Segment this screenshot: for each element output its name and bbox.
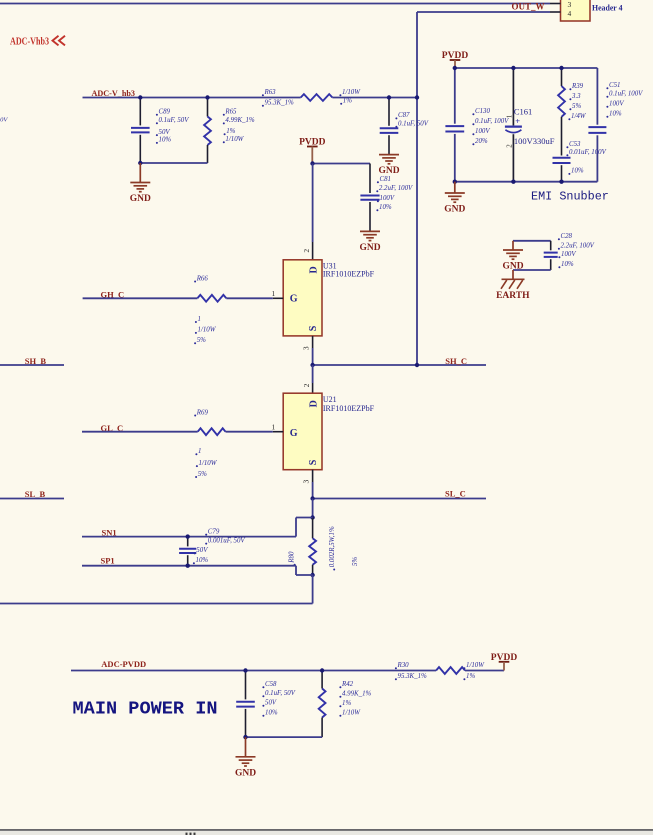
ground under C81 (360, 230, 380, 232)
svg-text:1: 1 (272, 423, 276, 432)
wire SP1 jog down (295, 566, 297, 575)
svg-text:1/10W: 1/10W (342, 710, 361, 717)
wire SH_B stub (0, 364, 64, 366)
svg-text:1/10W: 1/10W (225, 136, 244, 143)
resistor R30 95.3K (436, 667, 465, 674)
svg-text:100V: 100V (561, 251, 576, 258)
svg-text:10%: 10% (379, 204, 392, 211)
pin 1 U21 gate (273, 431, 283, 433)
junction EMI top / C130 (453, 66, 457, 70)
wire SN1 jog up (295, 518, 297, 537)
svg-text:1/10W: 1/10W (198, 327, 217, 334)
svg-text:3.3: 3.3 (571, 93, 581, 100)
junction SP1/C79 (186, 564, 190, 568)
svg-text:R63: R63 (264, 89, 277, 96)
svg-text:IRF1010EZPbF: IRF1010EZPbF (323, 270, 375, 279)
svg-text:0.1uF, 50V: 0.1uF, 50V (265, 690, 296, 697)
wire ADC-V_hb3 left segment (83, 97, 301, 99)
svg-text:C53: C53 (569, 141, 581, 148)
connector Header 4 (561, 0, 591, 21)
svg-text:C130: C130 (475, 108, 490, 115)
pin 1 U31 gate (273, 297, 283, 299)
svg-text:C58: C58 (265, 681, 277, 688)
svg-text:1: 1 (272, 289, 276, 298)
wire GL_C right (226, 431, 273, 433)
junction R80 bottom node (310, 573, 314, 577)
svg-text:G: G (290, 428, 298, 439)
wire GL_C left (82, 431, 198, 433)
pin 3 of header (550, 3, 561, 5)
junction EMI bottom / C130 (453, 180, 457, 184)
svg-text:50V: 50V (0, 117, 8, 124)
svg-text:4: 4 (568, 9, 572, 18)
svg-text:3: 3 (302, 480, 311, 484)
svg-text:10%: 10% (609, 111, 622, 118)
junction EMI top / R39 (559, 66, 563, 70)
svg-text:1: 1 (198, 316, 201, 323)
capacitor C79 0.001uF 50V (187, 537, 189, 547)
svg-text:GND: GND (235, 768, 256, 778)
wire GH_C left (83, 297, 198, 299)
svg-text:2: 2 (505, 144, 513, 148)
svg-text:100V330uF: 100V330uF (514, 136, 555, 146)
svg-text:OUT_W: OUT_W (512, 2, 545, 12)
svg-text:5%: 5% (351, 557, 359, 567)
wire PVDD to U31 drain (312, 164, 314, 243)
svg-text:4.99K_1%: 4.99K_1% (225, 117, 255, 124)
ground chassis block (512, 241, 514, 250)
svg-text:GND: GND (130, 194, 151, 204)
svg-text:GND: GND (444, 205, 465, 215)
wire to header pin 3 (0, 3, 550, 5)
svg-text:1/10W: 1/10W (342, 89, 361, 96)
capacitor C89 0.1uF 50V (139, 98, 141, 126)
svg-text:0.002R,5W,1%: 0.002R,5W,1% (328, 526, 336, 567)
svg-text:4.99K_1%: 4.99K_1% (342, 691, 372, 698)
junction EMI bottom / C161 (511, 180, 515, 184)
capacitor C51 0.1uF 100V (596, 68, 598, 125)
svg-text:SP1: SP1 (101, 556, 115, 566)
svg-text:EARTH: EARTH (496, 291, 530, 301)
wire ADC-PVDD (71, 670, 436, 672)
wire PVDD node to C81 (313, 163, 371, 165)
wire EMI top rail (455, 67, 598, 69)
svg-text:0.1uF, 100V: 0.1uF, 100V (475, 118, 509, 125)
wire SN1 (82, 536, 296, 538)
svg-text:MAIN POWER IN: MAIN POWER IN (73, 698, 218, 719)
svg-text:1%: 1% (226, 128, 235, 135)
earth ground symbol (512, 270, 514, 279)
svg-text:ADC-PVDD: ADC-PVDD (101, 659, 146, 669)
transistor U31 IRF1010EZPbF (312, 242, 314, 260)
junction U31.S/U21.D node (310, 363, 314, 367)
svg-text:+: + (515, 116, 520, 126)
svg-text:R66: R66 (196, 275, 209, 282)
pin 4 of header (550, 11, 561, 13)
svg-text:100V: 100V (475, 128, 490, 135)
capacitor C161 330uF 100V electrolytic (512, 68, 514, 125)
svg-text:10%: 10% (196, 557, 209, 564)
svg-text:C79: C79 (208, 528, 220, 535)
wire SH_C (313, 364, 486, 366)
svg-text:0.001uF, 50V: 0.001uF, 50V (208, 537, 246, 544)
capacitor C81 2.2uF 100V (369, 164, 371, 194)
svg-text:10%: 10% (561, 261, 574, 268)
capacitor C28 2.2uF 100V (550, 241, 552, 251)
svg-text:R42: R42 (341, 681, 354, 688)
junction C89 bottom / GND (138, 161, 142, 165)
svg-text:0.01uF, 100V: 0.01uF, 100V (569, 149, 607, 156)
resistor R42 4.99K (321, 671, 323, 689)
svg-text:1/10W: 1/10W (466, 662, 485, 669)
svg-text:50V: 50V (159, 129, 171, 136)
svg-text:10%: 10% (159, 137, 172, 144)
svg-text:Header 4: Header 4 (592, 2, 623, 12)
resistor R65 4.99K (207, 98, 209, 117)
wire C28 bottom to EARTH (513, 269, 551, 271)
junction EMI top / C161 (511, 66, 515, 70)
junction SN1/C79 (186, 534, 190, 538)
junction U21.S node (310, 496, 314, 500)
svg-text:5%: 5% (198, 471, 207, 478)
svg-text:S: S (308, 459, 319, 465)
svg-text:50V: 50V (196, 547, 208, 554)
svg-text:C81: C81 (380, 176, 392, 183)
ground under C87 (379, 154, 399, 156)
grip dots (186, 833, 188, 835)
junction ADC net / C87 (387, 95, 391, 99)
svg-text:C87: C87 (398, 112, 410, 119)
svg-text:2.2uF, 100V: 2.2uF, 100V (379, 185, 413, 192)
svg-text:G: G (290, 293, 298, 304)
ground under C89 (139, 163, 141, 183)
resistor R66 1 ohm (197, 295, 226, 302)
svg-text:SH_C: SH_C (445, 356, 467, 366)
junction C58 bottom / GND (243, 735, 247, 739)
wire GH_C right (226, 297, 272, 299)
wire U21 source down (312, 482, 314, 499)
svg-text:IRF1010EZPbF: IRF1010EZPbF (323, 404, 375, 413)
wire R80 bottom down (312, 575, 314, 604)
junction EMI bottom / C53 (559, 180, 563, 184)
capacitor C130 0.1uF 100V (454, 68, 456, 124)
svg-text:GND: GND (378, 166, 399, 176)
svg-text:95.3K_1%: 95.3K_1% (398, 673, 428, 680)
svg-text:R39: R39 (571, 83, 584, 90)
svg-text:C28: C28 (561, 233, 573, 240)
resistor R39 3.3 (561, 68, 563, 86)
svg-text:0.1uF, 100V: 0.1uF, 100V (609, 91, 643, 98)
window bottom border (0, 829, 653, 831)
wire bottom return (0, 603, 313, 605)
svg-text:C89: C89 (159, 109, 171, 116)
junction PVDD node (310, 161, 314, 165)
junction ADC net / C89 (138, 95, 142, 99)
ground EMI (454, 182, 456, 193)
wire SP1 jog right (296, 574, 313, 576)
wire ADC-V_hb3 right segment (332, 97, 417, 99)
svg-text:10%: 10% (265, 710, 278, 717)
capacitor C58 0.1uF 50V (245, 671, 247, 700)
svg-text:100V: 100V (609, 101, 624, 108)
svg-text:2: 2 (302, 249, 311, 253)
svg-text:R80: R80 (287, 551, 295, 564)
wire vertical net OUT_W down to SH_C (416, 12, 418, 365)
wire U31 source to SH_C (312, 348, 314, 365)
svg-text:1%: 1% (466, 673, 475, 680)
wire R30 to PVDD (465, 670, 504, 672)
wire SL_C (313, 498, 486, 500)
junction ADC net / R65 (205, 95, 209, 99)
svg-text:3: 3 (302, 346, 311, 350)
svg-text:C51: C51 (609, 82, 621, 89)
junction ADC-PVDD / R42 (320, 668, 324, 672)
svg-text:10%: 10% (571, 168, 584, 175)
svg-text:5%: 5% (197, 337, 206, 344)
svg-text:100V: 100V (380, 195, 395, 202)
svg-text:SL_B: SL_B (25, 489, 46, 499)
svg-text:S: S (308, 325, 319, 331)
svg-text:5%: 5% (572, 103, 581, 110)
wire SN1 jog right (296, 517, 313, 519)
pin 3 U21 source (312, 470, 314, 482)
svg-text:20%: 20% (475, 138, 488, 145)
wire C89 to R65 bottom (140, 162, 207, 164)
wire SL_B stub (0, 498, 64, 500)
svg-text:D: D (309, 266, 320, 273)
wire GND to C28 top (513, 240, 551, 242)
wire to header pin 4 horizontal (417, 11, 550, 13)
svg-text:ADC-V_hb3: ADC-V_hb3 (92, 88, 136, 98)
wire SH_C node to U21 drain (312, 365, 314, 383)
wire C58 to R42 bottom (246, 736, 323, 738)
wire SL_C node down (312, 499, 314, 518)
svg-text:0.1uF, 50V: 0.1uF, 50V (398, 121, 429, 128)
junction ADC net / OUT_W vertical (415, 95, 419, 99)
svg-text:1: 1 (505, 114, 513, 118)
svg-text:EMI Snubber: EMI Snubber (531, 190, 609, 204)
svg-text:ADC-Vhb3: ADC-Vhb3 (10, 37, 49, 48)
wire EMI bottom rail (455, 181, 598, 183)
svg-text:95.3K_1%: 95.3K_1% (265, 100, 295, 107)
junction OUT_W vertical to SH_C (415, 363, 419, 367)
svg-text:R30: R30 (397, 662, 410, 669)
svg-text:GND: GND (359, 243, 380, 253)
svg-text:R69: R69 (196, 409, 209, 416)
pin 3 U31 source (312, 336, 314, 348)
wire SP1 (82, 565, 296, 567)
capacitor C53 0.01uF 100V (553, 157, 571, 159)
resistor R69 1 ohm (198, 428, 226, 435)
svg-text:2.2uF, 100V: 2.2uF, 100V (561, 243, 595, 250)
ground main power (245, 737, 247, 757)
svg-text:1/4W: 1/4W (571, 113, 587, 120)
capacitor C87 0.1uF 50V (388, 98, 390, 126)
junction R80 top node (310, 515, 314, 519)
svg-text:1%: 1% (342, 700, 351, 707)
svg-text:D: D (309, 400, 320, 407)
resistor R80 0.002R 5W (312, 518, 314, 539)
svg-text:1/10W: 1/10W (199, 460, 218, 467)
svg-text:0.1uF, 50V: 0.1uF, 50V (159, 117, 190, 124)
svg-text:1%: 1% (343, 98, 352, 105)
svg-text:U21: U21 (323, 395, 337, 404)
svg-text:50V: 50V (265, 700, 277, 707)
svg-text:1: 1 (198, 448, 201, 455)
svg-text:SL_C: SL_C (445, 488, 466, 498)
junction ADC-PVDD / C58 (243, 668, 247, 672)
svg-text:2: 2 (302, 383, 311, 387)
resistor R63 95.3K (301, 94, 333, 101)
svg-text:R65: R65 (224, 109, 237, 116)
